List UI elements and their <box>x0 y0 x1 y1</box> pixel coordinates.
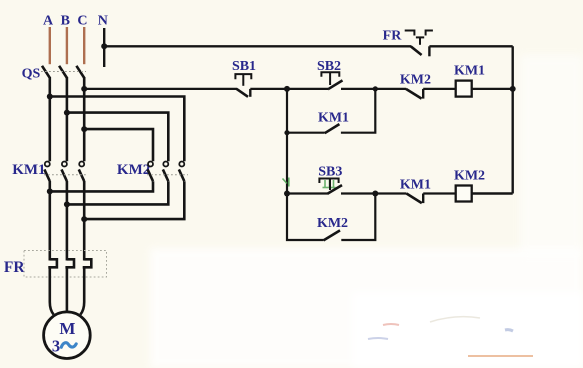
neutral wire N (incoming stub) <box>103 28 105 67</box>
phase wire A (incoming) <box>49 27 51 64</box>
svg-text:FR: FR <box>4 259 25 276</box>
wire FR to motor left <box>50 267 54 314</box>
wire phase C from QS to KM1 contact <box>83 77 86 161</box>
wire phase C KM1 to FR heater <box>83 181 86 261</box>
wire FR to motor right <box>80 267 84 314</box>
wire KM1 coil to right rail <box>471 88 512 90</box>
wire KM2 NC to KM1 coil <box>423 88 456 90</box>
SB1 NC fixed terminal tick <box>249 89 251 97</box>
phase wire C (incoming) <box>83 27 85 64</box>
right rail down <box>512 46 514 193</box>
FR heater element phase A <box>48 259 57 267</box>
junction KM2 tap on phase B <box>64 110 70 116</box>
wire KM2 right column to phase C below <box>84 181 184 219</box>
KM2 NC fixed terminal tick <box>422 89 424 99</box>
svg-text:KM2: KM2 <box>400 73 431 88</box>
top control rail from FR contact to right rail <box>429 45 512 47</box>
wire right of KM2 self-hold branch <box>341 194 375 241</box>
watermark-erased white blob bottom right <box>150 55 583 368</box>
junction self-hold rejoin row1 <box>373 86 378 91</box>
motor ~ (AC wave) <box>61 343 76 348</box>
wire tap C to KM2 left column <box>84 129 153 161</box>
wire SB3 to KM1 NC contact <box>341 192 407 194</box>
junction on phase B lower <box>64 201 70 207</box>
wire SB1 to junction <box>250 88 287 90</box>
phase wire B (incoming) <box>66 27 68 64</box>
wire phase B from QS to KM1 contact <box>66 77 69 161</box>
svg-text:QS: QS <box>22 66 41 81</box>
wire phase B KM1 to FR heater <box>66 181 69 261</box>
coil KM2 <box>456 186 472 202</box>
contactor KM1 main contact pole B <box>62 162 67 182</box>
junction coil KM1 at right rail <box>510 86 516 92</box>
svg-text:N: N <box>98 14 108 29</box>
thermal relay FR enclosure (dashed) <box>24 251 107 278</box>
wire KM2 middle column to phase B below <box>67 181 168 204</box>
wire tap A to KM2 right column <box>50 97 185 162</box>
svg-text:KM1: KM1 <box>318 110 349 125</box>
contactor KM2 main contact left pole <box>148 162 153 182</box>
svg-text:KM1: KM1 <box>454 63 485 78</box>
wire tap B to KM2 middle column <box>67 113 168 162</box>
FR NC contact blade <box>411 46 422 55</box>
svg-text:KM2: KM2 <box>117 162 150 178</box>
svg-text:FR: FR <box>383 29 403 44</box>
wire SB2 to KM2 NC contact <box>341 88 406 90</box>
SB2 button cap <box>321 72 339 85</box>
junction self-hold rejoin row2 <box>372 191 378 197</box>
wire phase A KM1 to FR heater <box>48 181 51 261</box>
wire row2 left to SB3 <box>287 192 327 194</box>
green watermark mark 2 <box>323 179 336 188</box>
svg-text:KM2: KM2 <box>317 216 348 231</box>
contactor KM1 main contact pole A <box>44 162 49 182</box>
wire left vertical down to row 2 <box>286 133 288 194</box>
FR NC contact actuator symbol <box>405 31 433 45</box>
top control rail from N junction to FR contact <box>104 45 411 47</box>
junction on phase C lower <box>81 216 87 222</box>
svg-text:SB3: SB3 <box>318 164 342 179</box>
svg-text:KM1: KM1 <box>12 162 45 178</box>
svg-text:C: C <box>77 14 87 29</box>
switch QS blade pole A <box>42 66 50 78</box>
wire down-left of KM1 self-hold branch <box>287 89 325 133</box>
wire KM2 coil to right rail corner <box>471 192 512 194</box>
svg-text:A: A <box>43 14 54 29</box>
FR heater element phase C <box>83 259 92 267</box>
junction after SB1 <box>284 86 290 92</box>
contactor KM1 linkage (dashed) <box>44 174 88 176</box>
wire KM1 NC to KM2 coil <box>423 192 456 194</box>
motor M circle <box>44 312 91 359</box>
svg-text:3: 3 <box>52 337 60 356</box>
wire phase A from QS to KM1 contact <box>48 77 51 161</box>
wire KM2 left column to phase A below <box>50 181 153 191</box>
junction row 2 left <box>284 191 290 197</box>
wire right of KM1 self-hold branch <box>341 89 375 133</box>
SB1 button cap <box>235 74 251 86</box>
green watermark mark 1 <box>283 178 289 187</box>
contactor KM2 main contact right pole <box>179 162 184 182</box>
junction on N <box>101 43 107 49</box>
contactor KM2 main contact middle pole <box>163 162 168 182</box>
switch QS blade pole B <box>59 66 67 78</box>
wire down-left of KM2 self-hold branch <box>287 194 324 241</box>
wire control feed from phase C to SB1 <box>84 88 237 90</box>
svg-text:KM2: KM2 <box>454 168 485 183</box>
SB3 button cap <box>319 179 338 191</box>
junction on phase A lower <box>47 188 53 194</box>
svg-text:SB1: SB1 <box>232 59 256 74</box>
KM2 NO aux contact blade <box>324 230 341 240</box>
wire junction to SB2 <box>287 88 328 90</box>
FR NC contact fixed terminal tick <box>428 46 430 56</box>
contactor KM2 linkage (dashed) <box>147 174 188 176</box>
KM1 NC contact blade <box>407 194 422 204</box>
switch QS linkage (dashed) <box>41 71 86 73</box>
junction control tap on phase C <box>81 86 87 92</box>
coil KM1 <box>456 81 472 97</box>
SB2 NO contact blade <box>328 80 343 89</box>
junction KM2 tap on phase C <box>81 126 87 132</box>
switch QS blade pole C <box>76 66 84 78</box>
svg-text:B: B <box>61 14 70 29</box>
SB1 NC contact blade <box>237 89 248 97</box>
junction self-hold branch at left vertical <box>284 130 289 135</box>
KM2 NC contact blade <box>406 89 422 99</box>
svg-text:M: M <box>59 319 75 338</box>
wire FR to motor middle <box>66 267 69 312</box>
svg-text:KM1: KM1 <box>400 178 431 193</box>
SB3 NO contact blade <box>327 185 342 194</box>
junction KM2 tap on phase A <box>47 94 53 100</box>
KM1 NO aux contact blade <box>325 124 340 133</box>
contactor KM1 main contact pole C <box>79 162 84 182</box>
FR heater element phase B <box>65 259 74 267</box>
KM1 NC fixed terminal tick <box>422 194 424 204</box>
